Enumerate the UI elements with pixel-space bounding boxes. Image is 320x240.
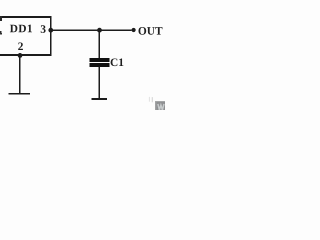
- capacitor C1 bottom plate: [90, 63, 110, 67]
- ground bar under C1: [92, 98, 107, 100]
- wire: pin 3 to OUT terminal: [51, 29, 132, 31]
- wire: pin 2 down to ground: [19, 56, 21, 94]
- wire: junction down to C1 top plate: [98, 30, 100, 58]
- label OUT: [138, 27, 162, 35]
- wire: C1 bottom plate to ground: [99, 67, 101, 99]
- pin 2 connection dot on box bottom edge: [18, 53, 23, 58]
- IC DD1 box left edge stub at image edge: [0, 16, 2, 21]
- pin 2 number: [18, 42, 23, 50]
- watermark fragment at bottom-right corner: [149, 97, 165, 110]
- junction node dot (wire to C1): [97, 28, 102, 33]
- ground bar under pin 2: [9, 93, 30, 95]
- IC DD1 box top edge (cropped at left): [0, 16, 52, 18]
- pin 3 connection dot on box edge: [48, 28, 53, 33]
- label C1: [111, 58, 124, 66]
- IC DD1 box bottom edge (cropped at left): [0, 54, 52, 56]
- pin 1 number (cropped at left image edge): [0, 31, 2, 34]
- pin 3 number: [41, 25, 46, 33]
- OUT terminal dot: [132, 28, 136, 32]
- capacitor C1 top plate: [90, 58, 110, 62]
- IC DD1 box right edge: [50, 16, 52, 56]
- label DD1: [10, 25, 32, 33]
